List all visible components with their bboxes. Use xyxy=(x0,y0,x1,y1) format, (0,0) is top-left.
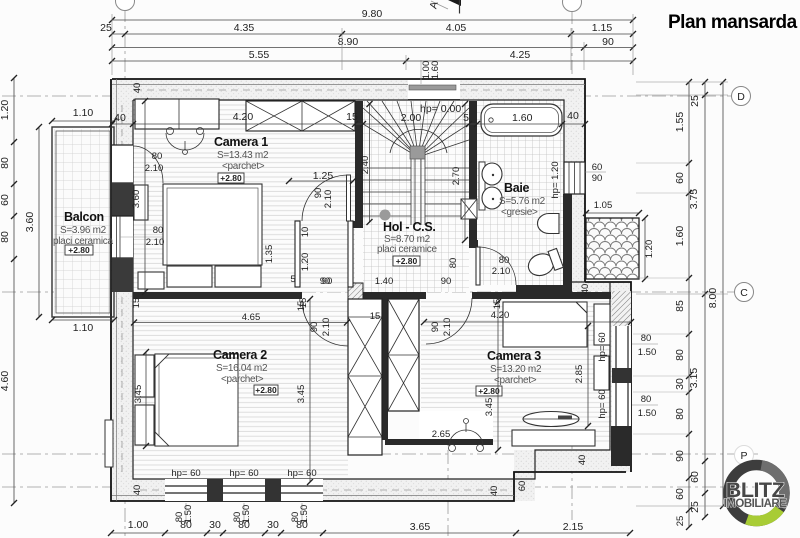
svg-text:30: 30 xyxy=(674,378,686,390)
svg-text:80: 80 xyxy=(153,225,164,236)
svg-text:1.15: 1.15 xyxy=(592,22,613,34)
svg-text:1.50: 1.50 xyxy=(638,347,657,358)
svg-text:90: 90 xyxy=(592,173,603,184)
svg-text:2.10: 2.10 xyxy=(146,237,165,248)
svg-text:1.10: 1.10 xyxy=(73,107,94,119)
svg-text:hp= 60: hp= 60 xyxy=(597,389,608,418)
svg-text:30: 30 xyxy=(209,519,221,531)
svg-text:Balcon: Balcon xyxy=(64,210,104,224)
svg-text:hp= 0.00: hp= 0.00 xyxy=(420,103,461,115)
svg-text:10: 10 xyxy=(300,227,311,238)
svg-text:60: 60 xyxy=(674,488,686,500)
svg-text:S=16.04 m2: S=16.04 m2 xyxy=(216,363,268,374)
svg-text:5: 5 xyxy=(463,112,469,124)
svg-text:60: 60 xyxy=(592,162,603,173)
svg-text:S=13.43 m2: S=13.43 m2 xyxy=(217,150,269,161)
svg-text:+2.80: +2.80 xyxy=(396,256,418,266)
svg-text:<parchet>: <parchet> xyxy=(222,161,265,172)
svg-text:2.10: 2.10 xyxy=(145,163,164,174)
svg-text:90: 90 xyxy=(320,276,331,287)
svg-text:4.65: 4.65 xyxy=(242,312,261,323)
svg-text:hp= 60: hp= 60 xyxy=(597,332,608,361)
svg-text:hp= 60: hp= 60 xyxy=(287,468,316,479)
svg-text:4.20: 4.20 xyxy=(491,310,510,321)
svg-text:3.60: 3.60 xyxy=(24,212,36,233)
svg-text:15: 15 xyxy=(298,298,309,309)
svg-text:80: 80 xyxy=(499,255,510,266)
svg-text:+2.80: +2.80 xyxy=(255,385,277,395)
svg-text:hp= 1.20: hp= 1.20 xyxy=(550,161,561,198)
svg-text:80: 80 xyxy=(641,333,652,344)
svg-text:60: 60 xyxy=(0,194,11,206)
svg-text:Hol - C.S.: Hol - C.S. xyxy=(383,220,436,234)
svg-text:3.45: 3.45 xyxy=(484,398,495,417)
svg-text:2.15: 2.15 xyxy=(563,521,584,533)
svg-text:S=5.76 m2: S=5.76 m2 xyxy=(499,196,546,207)
svg-text:Baie: Baie xyxy=(504,181,530,195)
svg-text:85: 85 xyxy=(674,300,686,312)
svg-text:1.60: 1.60 xyxy=(674,226,686,247)
svg-text:<parchet>: <parchet> xyxy=(494,375,537,386)
svg-text:<gresie>: <gresie> xyxy=(501,207,538,218)
svg-text:1.35: 1.35 xyxy=(264,245,275,264)
svg-text:S=3.96 m2: S=3.96 m2 xyxy=(60,225,107,236)
svg-text:15: 15 xyxy=(370,311,381,322)
svg-text:80: 80 xyxy=(0,231,11,243)
svg-text:placi ceramice: placi ceramice xyxy=(377,244,437,255)
svg-text:3.65: 3.65 xyxy=(410,521,431,533)
svg-text:8.90: 8.90 xyxy=(338,36,359,48)
svg-text:1.20: 1.20 xyxy=(0,100,11,121)
svg-text:1.40: 1.40 xyxy=(375,276,394,287)
svg-text:IMOBILIARE: IMOBILIARE xyxy=(724,498,788,510)
svg-text:Camera 1: Camera 1 xyxy=(214,135,268,149)
svg-text:80: 80 xyxy=(674,408,686,420)
svg-text:90: 90 xyxy=(430,322,441,333)
svg-text:8.00: 8.00 xyxy=(707,288,719,309)
svg-text:+2.80: +2.80 xyxy=(220,173,242,183)
svg-text:80: 80 xyxy=(152,151,163,162)
svg-text:25: 25 xyxy=(675,516,686,527)
svg-text:C: C xyxy=(740,287,748,299)
svg-text:1.60: 1.60 xyxy=(512,112,533,124)
svg-text:4.25: 4.25 xyxy=(510,49,531,61)
svg-text:1.20: 1.20 xyxy=(644,240,655,259)
svg-text:5: 5 xyxy=(290,274,295,285)
svg-text:4.20: 4.20 xyxy=(233,111,254,123)
svg-text:40: 40 xyxy=(132,485,143,496)
svg-text:+2.80: +2.80 xyxy=(68,245,90,255)
svg-text:40: 40 xyxy=(114,112,126,124)
svg-text:1.55: 1.55 xyxy=(674,112,686,133)
svg-text:3.75: 3.75 xyxy=(688,189,700,210)
svg-text:4.60: 4.60 xyxy=(0,371,11,392)
svg-text:1.25: 1.25 xyxy=(313,170,334,182)
svg-text:90: 90 xyxy=(602,36,614,48)
svg-text:P: P xyxy=(740,450,747,462)
svg-text:4.05: 4.05 xyxy=(446,22,467,34)
svg-text:Camera 3: Camera 3 xyxy=(487,349,541,363)
svg-text:40: 40 xyxy=(489,486,500,497)
svg-text:60: 60 xyxy=(517,481,528,492)
svg-text:15: 15 xyxy=(492,299,503,310)
svg-text:90: 90 xyxy=(309,322,320,333)
svg-text:3.15: 3.15 xyxy=(688,368,700,389)
svg-text:80: 80 xyxy=(448,258,459,269)
svg-text:3.60: 3.60 xyxy=(131,190,142,209)
svg-text:4.35: 4.35 xyxy=(234,22,255,34)
svg-text:1.50: 1.50 xyxy=(241,505,252,524)
svg-text:30: 30 xyxy=(267,519,279,531)
svg-text:1.50: 1.50 xyxy=(299,505,310,524)
svg-text:2.85: 2.85 xyxy=(574,365,585,384)
svg-text:40: 40 xyxy=(580,284,591,295)
svg-text:Plan mansarda: Plan mansarda xyxy=(668,12,798,33)
svg-text:hp= 60: hp= 60 xyxy=(229,468,258,479)
svg-text:2.70: 2.70 xyxy=(451,167,462,186)
svg-text:15: 15 xyxy=(346,111,358,123)
svg-text:hp= 60: hp= 60 xyxy=(171,468,200,479)
svg-text:60: 60 xyxy=(674,172,686,184)
svg-text:40: 40 xyxy=(567,110,579,122)
svg-text:90: 90 xyxy=(441,276,452,287)
svg-text:25: 25 xyxy=(100,22,112,34)
svg-text:3.45: 3.45 xyxy=(133,385,144,404)
svg-text:25: 25 xyxy=(689,501,701,513)
svg-text:15: 15 xyxy=(131,298,142,309)
svg-text:2.65: 2.65 xyxy=(432,429,451,440)
svg-text:40: 40 xyxy=(132,83,143,94)
svg-text:80: 80 xyxy=(674,349,686,361)
svg-text:80: 80 xyxy=(0,157,11,169)
svg-text:25: 25 xyxy=(689,95,701,107)
svg-text:1.10: 1.10 xyxy=(73,322,94,334)
svg-text:3.45: 3.45 xyxy=(296,385,307,404)
svg-text:2.10: 2.10 xyxy=(321,318,332,337)
svg-text:Camera 2: Camera 2 xyxy=(213,348,267,362)
svg-text:1.60: 1.60 xyxy=(430,61,441,80)
svg-text:1.05: 1.05 xyxy=(594,200,613,211)
svg-text:60: 60 xyxy=(689,471,701,483)
svg-text:<parchet>: <parchet> xyxy=(221,374,264,385)
svg-text:2.10: 2.10 xyxy=(442,318,453,337)
svg-text:+2.80: +2.80 xyxy=(478,386,500,396)
svg-text:90: 90 xyxy=(674,450,686,462)
svg-text:80: 80 xyxy=(641,394,652,405)
svg-text:D: D xyxy=(737,91,745,103)
svg-text:2.10: 2.10 xyxy=(492,266,511,277)
svg-text:2.00: 2.00 xyxy=(401,112,422,124)
svg-text:1.00: 1.00 xyxy=(128,519,149,531)
svg-text:1.50: 1.50 xyxy=(638,408,657,419)
svg-text:5.55: 5.55 xyxy=(249,49,270,61)
svg-text:1.50: 1.50 xyxy=(183,505,194,524)
svg-text:1.20: 1.20 xyxy=(300,253,311,272)
svg-text:40: 40 xyxy=(577,455,588,466)
svg-text:2.10: 2.10 xyxy=(323,190,334,209)
svg-text:9.80: 9.80 xyxy=(362,8,383,20)
